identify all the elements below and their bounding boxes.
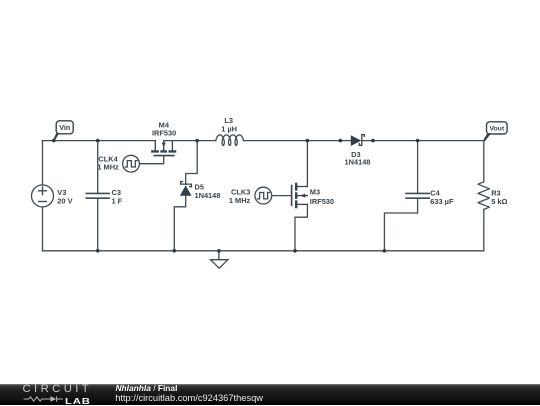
node C3 top dot (96, 139, 100, 143)
node D3 cathode dot (371, 139, 375, 143)
V3 plus sign (39, 187, 47, 195)
node M3 drain dot (306, 139, 310, 143)
M4 source stub (171, 141, 173, 151)
node D3 anode dot (339, 139, 343, 143)
D3 anode lead (340, 140, 351, 142)
wire CLK3 to M3 gate (272, 195, 292, 197)
M3 drain stub (296, 186, 307, 188)
ground stem (218, 251, 220, 260)
ground symbol triangle (211, 260, 228, 269)
CircuitLab logo wordmark (23, 383, 93, 395)
diode D3 (points right) triangle (351, 135, 361, 146)
svg-text:1N4148: 1N4148 (195, 191, 221, 200)
svg-text:633 µF: 633 µF (430, 197, 454, 206)
D5 cathode bar with hooks (180, 182, 192, 187)
CircuitLab logo LAB text (65, 396, 91, 406)
svg-text:1N4148: 1N4148 (345, 157, 371, 166)
M4 gate bar (154, 155, 174, 157)
svg-text:20 V: 20 V (57, 197, 72, 206)
M3 body stub (296, 195, 307, 197)
wire V3 minus to bottom rail (42, 207, 44, 251)
resistor R3 zigzag (478, 182, 489, 210)
M3 gate bar (291, 186, 293, 206)
node C4 top dot (416, 139, 420, 143)
footer bar (0, 384, 540, 405)
footer url (115, 393, 263, 403)
M4 body arrow (points down) (162, 143, 166, 148)
svg-text:1 F: 1 F (112, 197, 123, 206)
wire top rail: M4 source to L3 left lead (164, 140, 216, 142)
svg-text:1 MHz: 1 MHz (229, 196, 251, 205)
capacitor C3 plates (86, 193, 109, 198)
wire C4 upper lead (417, 141, 419, 194)
transistor M3 (vertical NMOS, IRF530) (292, 183, 308, 208)
diode D5 (points up) triangle (180, 185, 192, 195)
CLK4 square wave glyph (125, 161, 137, 167)
V3 minus sign (39, 201, 47, 203)
wire top rail: D3 cathode to Vout corner (373, 140, 484, 142)
node Vin tap dot (52, 139, 56, 143)
node L3/M4/D5 dot (195, 139, 199, 143)
wire C3 upper lead (97, 141, 99, 194)
svg-text:M3: M3 (310, 187, 320, 196)
M3 channel bars (295, 183, 297, 208)
node M3 source dot (293, 249, 297, 253)
M3 body arrow (points left) (300, 194, 305, 198)
svg-text:1 µH: 1 µH (221, 125, 237, 134)
svg-text:IRF530: IRF530 (152, 128, 176, 137)
M4 channel bars (151, 150, 176, 152)
wire bottom rail (43, 250, 484, 252)
wire C3 lower lead (97, 198, 99, 250)
node C3 bottom dot (96, 249, 100, 253)
wire top rail: L3 right lead to D3 anode (244, 140, 341, 142)
node flag Vin box (56, 121, 73, 134)
wire M3 source to bottom rail (295, 204, 307, 250)
capacitor C4 plates (406, 193, 429, 198)
voltage source V3 circle (32, 185, 54, 207)
inductor L3 loops (216, 135, 244, 146)
wire R3 lower lead (483, 209, 485, 250)
clock source CLK4 circle (123, 155, 140, 172)
svg-text:Vin: Vin (59, 123, 70, 132)
node C4 bottom dot (383, 249, 387, 253)
svg-text:1 MHz: 1 MHz (97, 163, 119, 172)
D3 cathode bar with hooks (359, 134, 364, 146)
junction dots top rail (52, 139, 419, 253)
wire D5 lower lead (jog left to bottom rail) (174, 196, 185, 251)
CircuitLab logo resistor-diode glyph (23, 394, 67, 404)
M4 drain stub (154, 141, 156, 151)
svg-text:Vout: Vout (489, 126, 504, 133)
M3 source stub (296, 203, 307, 205)
clock source CLK3 circle (255, 187, 272, 204)
wire left vertical top (Vin node to V3 +) (42, 141, 44, 185)
footer title Nhlanhla / Final (116, 383, 178, 393)
svg-text:IRF530: IRF530 (310, 197, 334, 206)
D3 cathode lead (363, 140, 373, 142)
node ground dot (217, 249, 221, 253)
wire top rail: Vin corner to M4 drain (43, 140, 156, 143)
CLK3 square wave glyph (258, 193, 270, 199)
Vin flag tail (53, 133, 59, 141)
transistor M4 (horizontal PMOS-style, IRF530) (151, 141, 176, 156)
node D5 bottom dot (173, 249, 177, 253)
node flag Vout box (487, 122, 508, 134)
wire CLK4 to M4 gate (140, 156, 164, 164)
M4 middle (body) stub (163, 141, 165, 151)
wire D5 upper lead (from L3 node, jog left) (186, 141, 198, 185)
wire M3 drain to top rail (306, 141, 308, 187)
svg-text:5 kΩ: 5 kΩ (491, 197, 507, 206)
wire R3 upper lead (483, 141, 485, 182)
Vout flag tail (483, 133, 491, 141)
wire C4 lower lead (jog left to bottom rail) (384, 198, 417, 250)
